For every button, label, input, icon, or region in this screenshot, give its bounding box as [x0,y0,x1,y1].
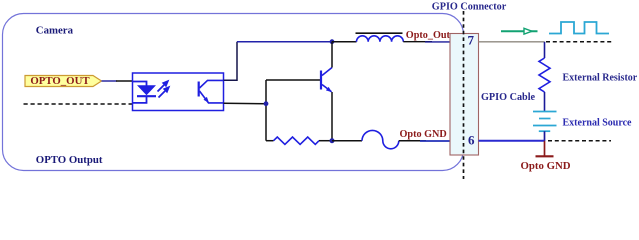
svg-text:GPIO Cable: GPIO Cable [481,92,536,103]
svg-text:OPTO_OUT: OPTO_OUT [30,75,90,87]
svg-text:Camera: Camera [36,24,74,36]
svg-text:External Resistor: External Resistor [563,73,638,84]
svg-text:OPTO Output: OPTO Output [36,154,103,166]
svg-text:Opto GND: Opto GND [521,160,571,172]
svg-text:Opto GND: Opto GND [400,129,447,140]
svg-text:External Source: External Source [563,117,633,128]
svg-text:GPIO Connector: GPIO Connector [432,1,507,12]
svg-text:6: 6 [468,133,475,148]
svg-text:7: 7 [468,33,475,48]
svg-text:Opto_Out: Opto_Out [406,30,451,41]
